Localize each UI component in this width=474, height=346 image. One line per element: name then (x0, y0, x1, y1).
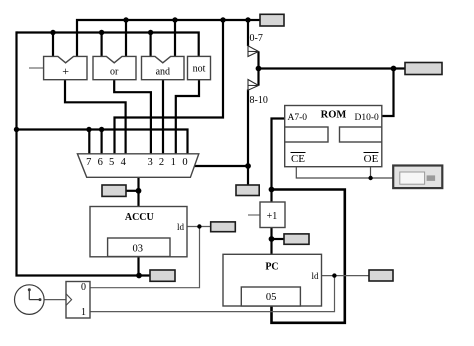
probe box accu ld (211, 222, 236, 232)
PC register box (223, 254, 322, 306)
mux trapezoid (77, 154, 198, 178)
svg-text:7: 7 (86, 157, 91, 168)
monitor icon (393, 166, 442, 189)
wire top bus to mux input 5 (115, 20, 224, 155)
wire phase1 to PC ld (90, 276, 335, 312)
wire probe stub top bus (248, 19, 260, 21)
wire or right input (125, 20, 127, 57)
wire to ROM A7-0 (272, 119, 285, 190)
wire mux input 6 (100, 130, 102, 155)
wire and right input (174, 20, 176, 57)
wire and left input (150, 33, 152, 57)
incrementer +1 box (260, 202, 285, 228)
wire not output to mux input 1 (176, 80, 199, 155)
svg-text:1: 1 (81, 307, 86, 318)
svg-text:03: 03 (133, 244, 144, 255)
svg-text:3: 3 (147, 157, 152, 168)
wire +1 enable stub (248, 214, 260, 216)
phase box clock wedge (66, 294, 72, 306)
svg-text:A7-0: A7-0 (288, 113, 308, 123)
ROM inner left box (285, 127, 328, 142)
svg-text:1: 1 (171, 157, 176, 168)
wire adder left input (52, 33, 54, 57)
svg-text:ROM: ROM (321, 109, 347, 120)
tristate buffer 0-7 (248, 46, 259, 57)
svg-text:6: 6 (98, 157, 103, 168)
alu not box (188, 56, 211, 79)
svg-text:05: 05 (266, 292, 277, 303)
wire CE OE to monitor (296, 167, 393, 178)
wire buffer mid column (257, 52, 259, 86)
wire ACCU ld (187, 226, 211, 228)
PC value box 05 (241, 287, 300, 306)
wire ACCU output (137, 257, 139, 276)
svg-text:5: 5 (109, 157, 114, 168)
wire probe stub +1 output (272, 238, 285, 240)
ACCU register box (90, 207, 187, 257)
svg-text:and: and (156, 67, 170, 78)
alu adder box (44, 56, 87, 79)
ROM box (285, 106, 382, 167)
wire accu feedback left vertical (17, 31, 151, 275)
wire mux output to ACCU (137, 177, 139, 207)
wire or left input (100, 33, 102, 57)
svg-text:2: 2 (159, 157, 164, 168)
wire adder output to mux input 4 (65, 80, 126, 155)
wire data bus y68 (259, 67, 406, 69)
wire OE pin (370, 167, 372, 178)
wire top bus (77, 20, 248, 57)
svg-text:ld: ld (311, 271, 319, 281)
probe box pc in (284, 234, 309, 244)
probe box pc ld (369, 270, 393, 281)
svg-text:not: not (193, 64, 206, 75)
wire or output to mux input 3 (114, 80, 151, 155)
wire phase0 to ACCU ld (90, 227, 200, 288)
svg-text:+: + (62, 64, 69, 78)
svg-text:D10-0: D10-0 (355, 113, 380, 123)
phase box 0/1 (66, 282, 90, 319)
probe box mux right (236, 185, 259, 196)
svg-text:OE: OE (364, 153, 379, 165)
svg-text:8-10: 8-10 (250, 95, 268, 106)
wire buffer column upper (247, 20, 249, 46)
tristate buffer 8-10 (248, 80, 259, 91)
alu or box (93, 56, 136, 79)
svg-text:ld: ld (177, 222, 185, 232)
clock symbol (14, 285, 44, 315)
probe box data bus (405, 63, 442, 75)
svg-text:0-7: 0-7 (250, 33, 263, 44)
svg-text:0: 0 (81, 282, 86, 293)
svg-text:0: 0 (182, 157, 187, 168)
wire and output to mux input 2 (162, 80, 164, 155)
svg-text:4: 4 (121, 157, 127, 168)
wire probe stub mux output (126, 190, 139, 192)
probe box mux output (102, 185, 126, 196)
ROM inner right box (340, 127, 382, 142)
alu and box (142, 56, 185, 79)
probe box accu out (150, 270, 175, 281)
wire mux right output (194, 165, 249, 167)
wire PC loop (272, 190, 345, 323)
wire +1 output to PC (270, 228, 272, 255)
wire mux input 7 (88, 130, 90, 155)
wire second bus (17, 33, 199, 57)
wire buffer column lower (247, 90, 249, 186)
ACCU value box 03 (108, 238, 170, 257)
svg-text:PC: PC (265, 262, 278, 273)
wire mux line y129 (17, 130, 188, 155)
wire carry-in stub (29, 67, 44, 69)
wire bus to ROM D10-0 (382, 69, 394, 117)
svg-text:ACCU: ACCU (125, 212, 154, 223)
probe box top bus (260, 14, 284, 26)
svg-text:CE: CE (291, 153, 305, 165)
wire clock to phase box (44, 299, 66, 301)
svg-text:+1: +1 (267, 211, 278, 222)
svg-text:or: or (110, 67, 119, 78)
wire PC ld (322, 275, 370, 277)
wire ROM/PC column to +1 (270, 190, 272, 203)
